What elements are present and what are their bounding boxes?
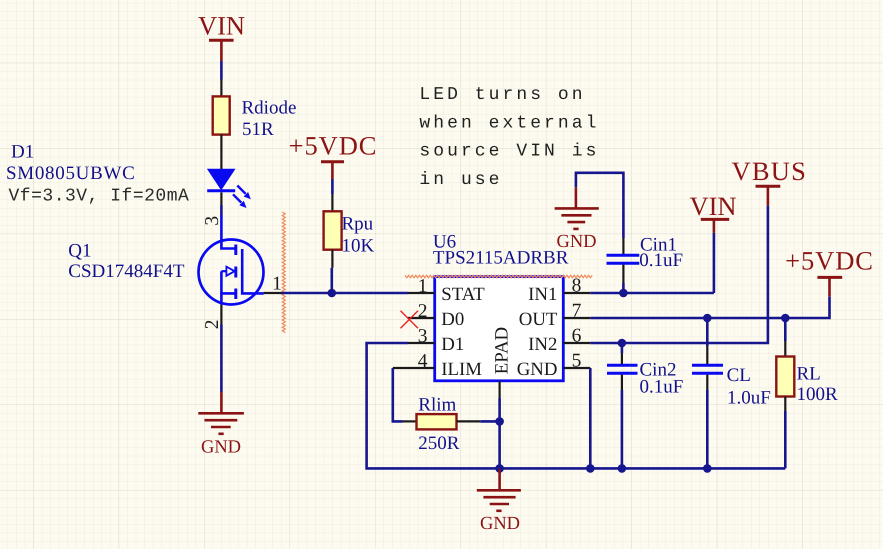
svg-text:Q1: Q1 (68, 241, 91, 262)
junction (Rpu / STAT net) (328, 289, 337, 298)
wire bottom GND net (500, 467, 786, 470)
wire GND pin5 down (589, 368, 592, 468)
junction (Cin2 / IN2) (618, 339, 627, 348)
pin EPAD (492, 327, 513, 398)
svg-text:D1: D1 (11, 142, 34, 163)
pin 1 of Q1 (gate) (264, 274, 282, 295)
capacitor Cin2 (607, 343, 683, 468)
note text (419, 85, 599, 190)
svg-text:when external: when external (419, 113, 599, 133)
svg-text:VBUS: VBUS (732, 156, 808, 186)
svg-text:source VIN is: source VIN is (419, 142, 599, 162)
svg-text:VIN: VIN (689, 191, 736, 221)
capacitor CL (692, 318, 771, 468)
wire OUT net (590, 297, 829, 318)
svg-text:Rpu: Rpu (342, 214, 374, 235)
svg-text:100R: 100R (797, 384, 839, 405)
resistor Rdiode (213, 96, 297, 140)
svg-text:GND: GND (556, 232, 596, 252)
svg-text:10K: 10K (342, 235, 375, 256)
pin 2 of Q1 (source) (202, 305, 223, 330)
label D1 (6, 142, 135, 185)
wire +5VDC to Rpu (331, 179, 334, 211)
svg-text:1: 1 (272, 274, 282, 295)
wire Rlim to EPAD net (457, 420, 500, 422)
power port VBUS (732, 156, 808, 206)
svg-text:0.1uF: 0.1uF (639, 250, 683, 271)
power port +5VDC (right) (785, 246, 874, 297)
svg-text:2: 2 (418, 301, 428, 322)
svg-text:RL: RL (797, 364, 821, 385)
svg-text:7: 7 (572, 301, 582, 322)
resistor Rlim (417, 395, 460, 455)
svg-text:1.0uF: 1.0uF (727, 388, 771, 409)
wire ILIM to Rlim (393, 368, 417, 421)
junction (CL / bottom net) (703, 464, 712, 473)
transistor Q1 (199, 215, 264, 305)
svg-text:EPAD: EPAD (492, 327, 513, 374)
ground GND (bottom center) (477, 468, 521, 534)
svg-text:STAT: STAT (441, 284, 485, 305)
junction (CL / OUT) (703, 314, 712, 323)
op-amp U6 body (TPS2115ADRBR) (433, 231, 569, 380)
wire D1 to Q1 pin 3 (220, 192, 222, 215)
svg-text:CL: CL (727, 365, 751, 386)
svg-text:D1: D1 (441, 334, 464, 355)
junction (Cin2 / bottom net) (618, 464, 627, 473)
svg-text:in use: in use (419, 170, 502, 190)
wire Rpu to STAT net (331, 250, 334, 293)
svg-text:6: 6 (572, 326, 582, 347)
wire GND to IN1 net (576, 173, 624, 238)
svg-text:1: 1 (418, 276, 428, 297)
orange error squiggle (top edge of U6) (405, 275, 592, 277)
svg-text:Vf=3.3V, If=20mA: Vf=3.3V, If=20mA (9, 186, 190, 206)
wire Rdiode to D1 (220, 135, 222, 169)
orange error squiggle (vertical, near Q1) (282, 212, 285, 333)
label Q1 (68, 241, 185, 283)
wire VIN to Rdiode (220, 61, 223, 96)
junction (GND5 / bottom net) (586, 464, 595, 473)
capacitor Cin1 (607, 235, 684, 284)
no-connect X on D0 (401, 311, 419, 329)
pin 1 STAT (408, 276, 485, 305)
svg-text:3: 3 (418, 326, 428, 347)
wire Q1 source to GND (220, 325, 223, 393)
svg-text:OUT: OUT (519, 309, 558, 330)
svg-text:2: 2 (202, 320, 223, 330)
junction (RL / OUT) (781, 314, 790, 323)
svg-text:4: 4 (418, 351, 428, 372)
svg-text:VIN: VIN (198, 10, 245, 40)
ground GND (top right) (555, 187, 599, 252)
junction (EPAD / bottom net) (495, 464, 504, 473)
svg-text:CSD17484F4T: CSD17484F4T (68, 261, 185, 282)
svg-text:D0: D0 (441, 309, 464, 330)
svg-text:51R: 51R (242, 119, 274, 140)
power port VIN (right) (689, 191, 736, 233)
svg-text:3: 3 (202, 216, 223, 226)
svg-text:IN2: IN2 (528, 334, 557, 355)
svg-text:GND: GND (480, 514, 520, 534)
pin 7 OUT (519, 301, 591, 330)
wire VIN right down to IN1 net (713, 233, 716, 293)
svg-text:250R: 250R (418, 433, 460, 454)
svg-text:5: 5 (572, 351, 582, 372)
svg-text:0.1uF: 0.1uF (640, 377, 684, 398)
resistor RL (776, 318, 838, 468)
ground GND (under Q1) (198, 392, 244, 458)
wire IN1 net (590, 292, 714, 295)
wire EPAD down (498, 398, 501, 468)
wire VBUS down to IN2 net (590, 206, 768, 343)
svg-text:TPS2115ADRBR: TPS2115ADRBR (433, 247, 569, 268)
svg-text:+5VDC: +5VDC (289, 131, 378, 161)
pin number 3 (Q1 drain) (202, 216, 223, 226)
svg-text:IN1: IN1 (528, 284, 557, 305)
svg-text:Rlim: Rlim (418, 395, 456, 416)
junction (Cin1 / IN1) (619, 289, 628, 298)
svg-text:ILIM: ILIM (441, 359, 482, 380)
pin 4 ILIM (393, 351, 482, 380)
power port VIN (top left) (198, 10, 245, 61)
wire STAT net (Q1 gate to U6 pin1) (282, 292, 409, 295)
svg-text:SM0805UBWC: SM0805UBWC (6, 163, 135, 184)
svg-text:Rdiode: Rdiode (242, 98, 297, 119)
wire D1 net (pin3 loop to bottom net) (367, 343, 500, 468)
LED D1 (207, 169, 251, 208)
pin 8 IN1 (528, 276, 590, 305)
svg-text:GND: GND (517, 359, 558, 380)
pin 2 D0 (408, 301, 464, 330)
pin 3 D1 (408, 326, 464, 355)
junction (Rlim / EPAD) (495, 417, 504, 426)
parameter Vf=3.3V, If=20mA (9, 186, 190, 206)
pin 6 IN2 (528, 326, 590, 355)
pin 5 GND (517, 351, 591, 380)
svg-text:+5VDC: +5VDC (785, 246, 874, 276)
svg-text:8: 8 (572, 276, 582, 297)
wire Cin1 to IN1 net (622, 283, 625, 293)
svg-text:GND: GND (201, 438, 241, 458)
resistor Rpu (324, 211, 375, 256)
power port +5VDC (left) (289, 131, 378, 179)
svg-text:LED turns on: LED turns on (419, 85, 585, 105)
